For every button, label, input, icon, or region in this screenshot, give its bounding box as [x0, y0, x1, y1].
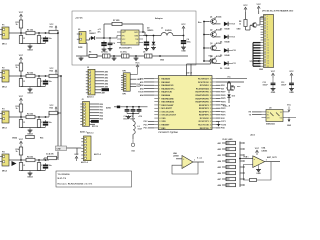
wire Q6 to header [257, 24, 260, 26]
junction ch3 a [20, 116, 22, 118]
header pin 10 stub [261, 39, 264, 41]
resistor R32 ladder [226, 147, 236, 150]
ground C2 [113, 57, 115, 59]
svg-text:CCP1: CCP1 [221, 121, 226, 123]
svg-text:1N4007: 1N4007 [89, 32, 96, 35]
MCU right pin 5 [212, 91, 216, 93]
svg-text:10uH: 10uH [138, 129, 143, 131]
svg-text:OSC2/CLKOUT: OSC2/CLKOUT [161, 115, 176, 117]
wire VCC hdr down [258, 11, 260, 14]
svg-text:RB7/PGD: RB7/PGD [200, 128, 210, 130]
svg-text:GND: GND [181, 51, 186, 53]
svg-text:SDO: SDO [221, 85, 225, 87]
resistor R2d [19, 79, 22, 87]
wire cluster bus [203, 22, 205, 62]
svg-text:R4 10k: R4 10k [27, 156, 34, 159]
resistor R2c [49, 74, 58, 77]
svg-text:OSC1/CLKIN: OSC1/CLKIN [161, 111, 174, 113]
svg-text:AN2: AN2 [105, 77, 109, 80]
svg-text:RD7/PSP7/PD: RD7/PSP7/PD [195, 92, 209, 94]
svg-text:17: 17 [267, 58, 269, 60]
svg-text:RE2/CS/AN7: RE2/CS/AN7 [161, 104, 174, 107]
wire R38 left [222, 184, 230, 186]
wire TX drop to R30 [228, 82, 230, 83]
svg-text:SDI: SDI [221, 88, 224, 90]
header pin 4 stub [261, 23, 264, 25]
resistor R2b [26, 74, 35, 77]
svg-text:RE0/RD/AN5: RE0/RD/AN5 [161, 97, 174, 100]
wire Q5 [226, 87, 230, 89]
MCU right pin 3 [212, 84, 216, 86]
wire node up to fuse rail [103, 24, 105, 38]
svg-text:J3: J3 [82, 99, 84, 101]
wire R8 to Q6 [245, 27, 247, 31]
wire caps top [126, 106, 128, 108]
capacitor C4 electrolytic [45, 163, 47, 164]
wire collector Q3 [214, 44, 216, 46]
diode D2 schottky [152, 42, 156, 45]
svg-text:PSP0: PSP0 [221, 115, 226, 117]
wire MCU right net 13 [216, 120, 221, 122]
svg-text:RC1/T1OSI: RC1/T1OSI [198, 125, 209, 127]
wire MCU right net 11 [216, 114, 221, 116]
wire JP3 out2 [130, 85, 136, 87]
svg-text:GND: GND [271, 92, 276, 94]
wire JP2 pin 1 [90, 103, 100, 105]
wire MCU left lower pin 14 [148, 120, 154, 122]
VCC arrow R1c [55, 27, 57, 31]
svg-text:GND: GND [237, 29, 242, 31]
MCU left pin 12 [154, 114, 158, 116]
wire ch3 mid [35, 116, 49, 118]
svg-text:100nF: 100nF [123, 118, 128, 120]
header pin 16 stub [261, 55, 264, 57]
resistor R37 ladder [226, 177, 236, 180]
svg-text:BC546: BC546 [216, 42, 221, 45]
MCU right pin 11 [212, 111, 216, 113]
MCU left pin 9 [154, 104, 158, 106]
wire ch4 bottom rail [21, 170, 46, 172]
svg-text:Q3: Q3 [210, 43, 212, 45]
wire U3 net1 [252, 111, 262, 113]
junction power a [103, 37, 105, 39]
resistor R4e [37, 163, 40, 171]
svg-text:AN3: AN3 [105, 80, 109, 83]
connector JP2 ADD1.1 [83, 102, 90, 127]
svg-text:R1: R1 [267, 115, 269, 117]
svg-text:S_out: S_out [197, 157, 202, 160]
capacitor C3 bottom [122, 54, 130, 58]
svg-text:ADC1.4: ADC1.4 [94, 153, 102, 156]
resistor R4a [19, 147, 22, 155]
svg-text:GND: GND [160, 60, 165, 62]
svg-text:GND4: GND4 [12, 137, 17, 140]
wire MCU right net 7 [216, 101, 221, 103]
wire avdd [114, 106, 117, 108]
wire collector Q2 [214, 30, 216, 32]
capacitor C2 bottom [103, 54, 111, 58]
svg-text:RB0/INT: RB0/INT [161, 125, 170, 127]
wire R38 right [240, 184, 245, 186]
svg-text:MAX232A: MAX232A [266, 122, 275, 125]
wire U9A feedback box [244, 162, 272, 180]
svg-text:RC5/SDO: RC5/SDO [200, 85, 210, 87]
wire MCU right net 9 [216, 107, 221, 109]
svg-text:1: 1 [194, 160, 195, 162]
MCU left pin 3 [154, 84, 158, 86]
capacitor C6 [109, 41, 111, 43]
wire emitter Q4 to LED [215, 62, 220, 64]
wire MCU right net 14 [216, 124, 221, 126]
wire JP2 pin 2 [90, 106, 100, 108]
svg-text:RD5/PSP5/PD: RD5/PSP5/PD [195, 98, 209, 100]
MCU left pin 2 [154, 81, 158, 83]
svg-text:L1: L1 [161, 28, 163, 30]
svg-text:RD3/PSP3: RD3/PSP3 [199, 105, 210, 107]
wire R37 left [222, 178, 230, 180]
wire MCU right net 2 [216, 84, 221, 86]
wire ch4 out [57, 152, 59, 160]
svg-text:1: 1 [266, 160, 267, 162]
transistor Q5 [230, 86, 235, 91]
wire ch2 bottom rail [21, 86, 46, 88]
wire VCC to R ch3 [20, 103, 22, 104]
svg-text:RD0/PSP0: RD0/PSP0 [199, 115, 210, 117]
svg-text:11: 11 [267, 42, 269, 44]
wire D10 down [228, 97, 230, 103]
svg-text:T0CKI: T0CKI [138, 92, 144, 94]
svg-text:28: 28 [210, 118, 212, 120]
resistor R35 ladder [226, 165, 236, 168]
resistor R1e [37, 36, 40, 44]
MCU left pin 14 [154, 120, 158, 122]
wire caps down [132, 114, 134, 122]
transistor Q2 [211, 32, 217, 38]
wire U8A feedback box [172, 162, 198, 174]
svg-text:C10: C10 [233, 50, 236, 52]
svg-text:AN8: AN8 [217, 184, 221, 187]
svg-text:31: 31 [210, 108, 212, 110]
wire bus ch2 vertical [60, 76, 62, 148]
wire MCU right net 15 [216, 127, 221, 129]
svg-text:Q2: Q2 [210, 30, 212, 32]
svg-text:AN4: AN4 [140, 94, 144, 97]
wire JP2 pin 6 [90, 118, 100, 120]
svg-text:VCC: VCC [135, 63, 140, 65]
wire L3 down [132, 134, 134, 139]
svg-text:AVDD: AVDD [106, 107, 112, 110]
svg-text:R3 10k: R3 10k [27, 114, 34, 116]
wire R35 left [222, 166, 230, 168]
wire power bottom rail [76, 55, 188, 57]
wire ch1 mid [35, 32, 49, 34]
resistor R3f bottom [26, 135, 35, 138]
svg-text:PIC16F877-TQFP44: PIC16F877-TQFP44 [159, 131, 179, 134]
transistor Q3 [211, 45, 217, 51]
svg-text:100nF: 100nF [281, 84, 287, 86]
svg-text:C3 470u: C3 470u [120, 51, 127, 54]
resistor R39 feedback [250, 179, 257, 182]
svg-text:AN2: AN2 [140, 84, 144, 87]
svg-text:VCC: VCC [181, 24, 186, 26]
wire R36 left [222, 172, 230, 174]
svg-text:AN7: AN7 [217, 178, 221, 181]
wire JP2 pin 8 [90, 123, 96, 125]
wire base Q4 [204, 60, 209, 62]
svg-text:D10: D10 [232, 96, 235, 98]
title block box [56, 171, 132, 187]
header pin 14 stub [261, 49, 264, 51]
wire base Q2 [204, 34, 209, 36]
svg-text:VCC: VCC [255, 148, 260, 150]
wire R1a down [20, 28, 22, 33]
VCC arrow R3c [55, 108, 57, 112]
ferrite bead FB1 [117, 106, 120, 109]
svg-text:Q1: Q1 [210, 17, 212, 19]
wire JP1 pin 4 [95, 80, 104, 82]
wire MCU TX long [216, 81, 244, 83]
svg-text:VCC: VCC [289, 71, 294, 73]
wire MCU net AN4 [144, 94, 154, 96]
svg-text:RC2/CCP1: RC2/CCP1 [199, 121, 210, 123]
LED D6 [224, 61, 228, 65]
resistor R36 ladder [226, 171, 236, 174]
svg-text:1k: 1k [239, 23, 241, 25]
svg-text:VCC: VCC [243, 5, 248, 7]
svg-text:37: 37 [210, 88, 212, 90]
resistor R31 ladder [226, 141, 236, 144]
wire U9A plus input [240, 158, 253, 160]
MCU right pin 10 [212, 107, 216, 109]
junction bottom rail [113, 55, 115, 57]
MCU left pin 13 [154, 117, 158, 119]
wire ch4 mid [35, 159, 49, 161]
wire JP2 pin 3 [90, 109, 100, 111]
wire MCU net AN2 [144, 84, 154, 86]
svg-text:GND: GND [259, 69, 264, 71]
wire JP2 pin 4 [90, 112, 100, 114]
svg-text:RA5/AN4: RA5/AN4 [161, 94, 171, 97]
svg-text:RD4: RD4 [100, 114, 104, 117]
MCU left pin 15 [154, 124, 158, 126]
svg-text:RD1: RD1 [100, 107, 104, 109]
svg-text:AMP_OUT1: AMP_OUT1 [267, 156, 277, 159]
svg-text:PSP5: PSP5 [221, 98, 226, 100]
svg-text:35: 35 [210, 95, 212, 97]
IC U1 PIC16F877 MCU [158, 76, 212, 130]
svg-text:15: 15 [267, 53, 269, 55]
wire JP1 pin 1 [95, 71, 104, 73]
wire ch3 out [58, 112, 61, 114]
wire R33 left [222, 154, 230, 156]
svg-text:39: 39 [210, 82, 212, 84]
svg-text:GND2: GND2 [27, 177, 33, 179]
MCU right pin 16 [212, 127, 216, 129]
svg-text:R4148: R4148 [225, 28, 230, 31]
svg-text:VCC: VCC [271, 71, 276, 73]
svg-text:RA2/AN2/VF-: RA2/AN2/VF- [161, 84, 174, 87]
svg-text:C8: C8 [143, 52, 145, 54]
wire JP2 pin 7 [90, 120, 96, 122]
LED D5 [224, 48, 228, 52]
optocoupler symbol U3 [270, 113, 274, 117]
junction ch1 a [20, 32, 22, 34]
ground ch1 [29, 45, 31, 47]
svg-text:M-V1-T.S: M-V1-T.S [58, 178, 67, 180]
capacitor C12 100nF [272, 81, 274, 83]
svg-text:NP1: NP1 [123, 93, 127, 95]
wire fuse to IC [122, 23, 143, 25]
wire R31 right [240, 142, 245, 144]
wire R33 right [240, 154, 245, 156]
transistor Q4 [211, 58, 217, 64]
ground D2 [153, 46, 155, 48]
wire R4a down [20, 155, 22, 160]
wire ch4 input [9, 159, 26, 161]
header pin 13 stub [261, 47, 264, 49]
svg-text:RD2: RD2 [100, 110, 104, 112]
wire U9A out [265, 161, 280, 163]
junction ch4 b [38, 159, 40, 161]
wire collector Q1 [214, 17, 216, 19]
resistor R33 ladder [226, 153, 236, 156]
svg-text:T1OSI: T1OSI [221, 124, 227, 126]
wire MCU right net 6 [216, 97, 221, 99]
svg-text:1N5819: 1N5819 [147, 30, 153, 32]
ground decoupling 1 [272, 87, 274, 89]
connector JP4 ADC1.4 [84, 136, 92, 161]
svg-text:VCC: VCC [50, 24, 55, 26]
svg-text:RD2/PSP2: RD2/PSP2 [199, 108, 210, 110]
svg-text:32: 32 [210, 105, 212, 107]
header pin 9 stub [261, 36, 264, 38]
capacitor C2 electrolytic [45, 79, 47, 80]
svg-text:VDD: VDD [161, 121, 166, 123]
svg-text:VCC: VCC [50, 105, 55, 107]
svg-text:AN6: AN6 [217, 172, 221, 175]
net label AD_5V2 highlighted [91, 120, 99, 123]
resistor R1b [26, 31, 35, 34]
svg-text:RC6/TX/CK: RC6/TX/CK [198, 82, 209, 84]
wire MCU right net 3 [216, 88, 221, 90]
svg-text:AN1: AN1 [140, 81, 144, 84]
svg-text:20: 20 [267, 66, 269, 68]
svg-text:ADC1.0: ADC1.0 [87, 95, 94, 98]
junction ch1 b [38, 32, 40, 34]
svg-text:10: 10 [267, 40, 269, 42]
svg-text:RD4/PSP4/PD: RD4/PSP4/PD [195, 101, 209, 104]
resistor R1a [19, 20, 22, 28]
connector J9 power input [79, 32, 86, 44]
svg-text:R30: R30 [232, 87, 235, 89]
wire collector Q4 [214, 57, 216, 59]
node CH labels [56, 146, 67, 151]
svg-text:PSP7: PSP7 [221, 92, 226, 94]
wire JP1 pin 8 [95, 92, 101, 94]
capacitor C4 output [183, 39, 185, 40]
resistor R2a [19, 63, 22, 71]
svg-text:PWR: PWR [78, 47, 83, 49]
wire JP1 pin 2 [95, 74, 104, 76]
net label AD_5V highlighted [102, 88, 110, 91]
wire MCU right net 12 [216, 117, 221, 119]
svg-text:VCC: VCC [208, 56, 213, 58]
wire JP2 pin 5 [90, 115, 100, 117]
MCU right pin 12 [212, 114, 216, 116]
wire caps bottom [127, 113, 139, 115]
svg-text:RD6/PSP6/PD: RD6/PSP6/PD [195, 95, 209, 97]
svg-text:RD0: RD0 [100, 104, 104, 106]
wire ch1 bottom rail [21, 43, 46, 45]
junction ch3 b [38, 116, 40, 118]
svg-text:C8: C8 [233, 24, 235, 26]
MCU right pin 9 [212, 104, 216, 106]
header pin 3 stub [261, 21, 264, 23]
svg-text:R14: R14 [40, 137, 43, 140]
MCU right pin 8 [212, 101, 216, 103]
header pin 8 stub [261, 34, 264, 36]
wire comb vertical [252, 43, 254, 67]
MCU right pin 2 [212, 81, 216, 83]
svg-text:RD5: RD5 [100, 118, 104, 120]
junction ch4 a [20, 159, 22, 161]
svg-text:RD3: RD3 [100, 113, 104, 115]
svg-text:wss: wss [237, 86, 240, 88]
connector JP3 ISP [123, 73, 130, 91]
svg-text:AN3: AN3 [140, 87, 144, 90]
wire R32 right [240, 148, 245, 150]
diode D10 [227, 94, 230, 97]
wire JP1 pin 7 [95, 89, 101, 91]
svg-text:29: 29 [210, 115, 212, 117]
power supply section border [72, 11, 196, 65]
svg-text:R6: R6 [89, 52, 91, 54]
svg-text:VCC: VCC [19, 12, 24, 14]
wire MCU right net 4 [216, 91, 221, 93]
svg-text:J2: J2 [87, 67, 89, 69]
MCU left pin 11 [154, 111, 158, 113]
svg-text:AN4: AN4 [105, 83, 109, 86]
ground ch3 [29, 129, 31, 131]
wire VCC to R ch4 [20, 146, 22, 147]
svg-text:JP10 AT-SIL 20 PIN HEADER 2X10: JP10 AT-SIL 20 PIN HEADER 2X10 [262, 10, 293, 13]
header pin comb wires [253, 42, 261, 44]
svg-text:SU4X0L: SU4X0L [165, 29, 173, 32]
header pin 6 stub [261, 29, 264, 31]
svg-text:R4148: R4148 [225, 54, 230, 57]
wire ch2 input [9, 75, 26, 77]
svg-text:13: 13 [267, 47, 269, 49]
svg-text:Adapter: Adapter [155, 17, 163, 20]
svg-text:C9: C9 [233, 37, 235, 39]
svg-text:ADC1.4: ADC1.4 [81, 161, 89, 164]
wire R34 left [222, 160, 230, 162]
capacitor C16 [138, 108, 140, 110]
wire JP1 pin 3 [95, 77, 104, 79]
resistor R3a [19, 104, 22, 112]
svg-text:PSP6: PSP6 [221, 95, 226, 97]
svg-text:VCC: VCC [50, 68, 55, 70]
wire ch3 bottom rail [21, 127, 46, 129]
svg-text:VCC: VCC [287, 105, 292, 107]
junction ch2 a [20, 75, 22, 77]
transistor Q1 [211, 19, 217, 25]
ground ch4 [29, 172, 31, 174]
resistor R3b [26, 115, 35, 118]
resistor R1c [49, 30, 58, 33]
wire R30 down [228, 90, 230, 93]
MCU right pin 15 [212, 124, 216, 126]
